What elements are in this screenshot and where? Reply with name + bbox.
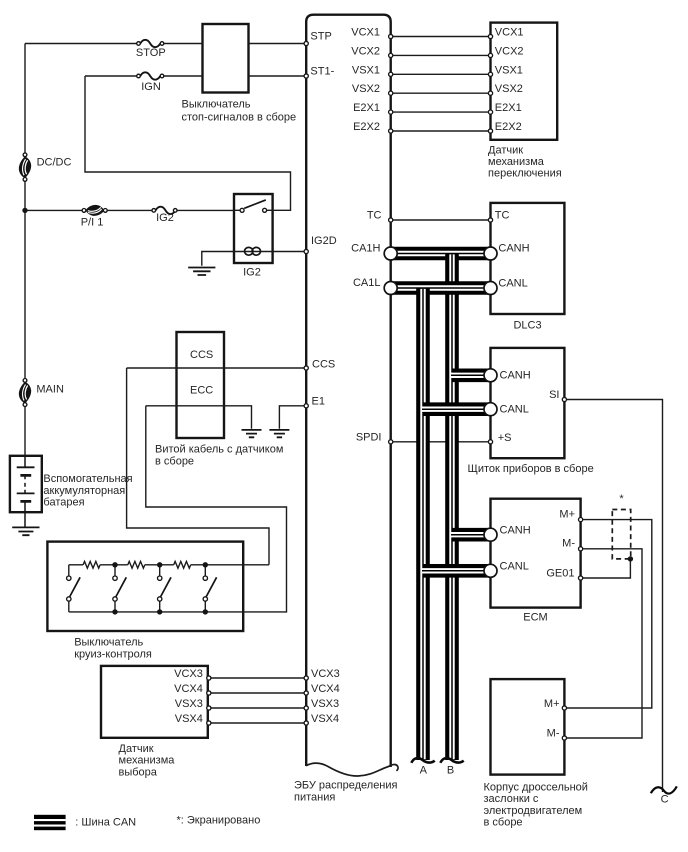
svg-text:CANL: CANL bbox=[500, 561, 529, 573]
svg-text:выбора: выбора bbox=[119, 766, 158, 778]
svg-text:CANH: CANH bbox=[498, 243, 529, 255]
svg-text:VSX4: VSX4 bbox=[311, 713, 339, 725]
terminal VCX1 ECU bbox=[389, 34, 393, 38]
wire IG2 fuse to relay bbox=[177, 209, 234, 211]
wire VSX2 bbox=[393, 92, 488, 94]
svg-text:DLC3: DLC3 bbox=[513, 320, 541, 332]
wire STP fuse to switch bbox=[164, 43, 203, 45]
svg-text:STP: STP bbox=[310, 30, 331, 42]
svg-text:TC: TC bbox=[367, 210, 382, 222]
wire cruise top rail bbox=[69, 564, 269, 566]
terminal E2X1 sensor bbox=[488, 110, 492, 114]
terminal VCX2 ECU bbox=[389, 53, 393, 57]
terminal SPDI ECU bbox=[389, 440, 393, 444]
wire CCS drop to cruise top rail bbox=[127, 368, 269, 565]
CAN bus branch CANH ECM bbox=[451, 528, 491, 542]
svg-text:M+: M+ bbox=[544, 698, 560, 710]
wire STP left segment bbox=[25, 43, 137, 45]
CAN bus branch CANH cluster bbox=[451, 368, 491, 382]
terminal CANH DLC3 bbox=[484, 247, 497, 260]
terminal VSX3 selector bbox=[207, 706, 211, 710]
terminal M- ECM bbox=[579, 547, 583, 551]
junction dots cruise bottom rail bbox=[112, 609, 208, 614]
fusible link P/I 1 bbox=[82, 205, 107, 215]
selector sensor box bbox=[101, 666, 208, 738]
svg-text:VCX2: VCX2 bbox=[351, 45, 380, 57]
svg-text:ECC: ECC bbox=[190, 385, 213, 397]
cruise switch 3 bbox=[158, 565, 172, 612]
terminal M+ throttle bbox=[562, 706, 566, 710]
wire CCS bbox=[127, 367, 304, 369]
terminal CA1H ECU bbox=[384, 247, 397, 260]
cruise control switch box bbox=[47, 542, 243, 631]
svg-text:IGN: IGN bbox=[141, 81, 161, 93]
svg-text:питания: питания bbox=[294, 791, 335, 803]
svg-text:Вспомогательная: Вспомогательная bbox=[43, 473, 132, 485]
wire VSX3 bbox=[211, 707, 304, 709]
svg-text:GE01: GE01 bbox=[546, 568, 574, 580]
ground ECC bbox=[242, 430, 262, 437]
svg-text:IG2: IG2 bbox=[243, 267, 261, 279]
break squiggle B bbox=[440, 758, 463, 763]
wire ECC drop to cruise bottom rail bbox=[146, 406, 287, 612]
junction dots cruise top rail bbox=[112, 562, 208, 567]
terminal VCX3 selector bbox=[207, 676, 211, 680]
twisted cable box bbox=[177, 332, 225, 438]
terminal CANL ECM bbox=[484, 564, 497, 577]
svg-text:VSX2: VSX2 bbox=[352, 83, 380, 95]
svg-text:VSX3: VSX3 bbox=[175, 698, 203, 710]
svg-text:STOP: STOP bbox=[136, 47, 166, 59]
svg-text:A: A bbox=[420, 765, 428, 777]
terminal VCX2 sensor bbox=[488, 53, 492, 57]
wire VCX4 bbox=[211, 692, 304, 694]
terminal CANH cluster bbox=[484, 369, 497, 382]
svg-text:Корпус дроссельной: Корпус дроссельной bbox=[484, 782, 588, 794]
terminal ST1- bbox=[304, 74, 308, 78]
terminal SI cluster bbox=[562, 397, 566, 401]
svg-text:CANL: CANL bbox=[498, 278, 527, 290]
relay IG2 box bbox=[234, 194, 273, 263]
terminal VCX4 ECU bbox=[304, 691, 308, 695]
svg-text:Выключатель: Выключатель bbox=[74, 637, 143, 649]
wire main fuse row bbox=[25, 209, 82, 211]
wire left battery feed vertical mid bbox=[24, 181, 26, 378]
resistor R2 cruise bbox=[128, 561, 145, 568]
svg-text:CANL: CANL bbox=[500, 403, 529, 415]
terminal CANL cluster bbox=[484, 403, 497, 416]
svg-text:*: Экранировано: *: Экранировано bbox=[177, 814, 261, 826]
wire left battery feed vertical top bbox=[24, 44, 26, 153]
junction dot battery feed bbox=[22, 208, 27, 213]
wire relay coil row bbox=[234, 251, 273, 253]
terminal E2X2 sensor bbox=[488, 129, 492, 133]
terminal VCX4 selector bbox=[207, 691, 211, 695]
wire GE01 to shield bbox=[583, 559, 631, 578]
wire IGN drop to relay bbox=[85, 76, 291, 210]
cruise switch 2 bbox=[113, 565, 127, 612]
svg-text:VSX1: VSX1 bbox=[352, 64, 380, 76]
CAN bus branch CANL cluster bbox=[422, 402, 491, 416]
terminal STP bbox=[304, 41, 308, 45]
svg-text:B: B bbox=[447, 765, 454, 777]
legend CAN bus sample bbox=[34, 815, 66, 830]
terminal VSX2 sensor bbox=[488, 91, 492, 95]
svg-text:стоп-сигналов в сборе: стоп-сигналов в сборе bbox=[182, 111, 297, 123]
DLC3 box bbox=[491, 203, 565, 314]
resistor R1 cruise bbox=[83, 561, 100, 568]
terminal VSX2 ECU bbox=[389, 91, 393, 95]
svg-text:SPDI: SPDI bbox=[356, 432, 382, 444]
fusible link MAIN bbox=[19, 379, 30, 407]
svg-text:E2X1: E2X1 bbox=[495, 102, 522, 114]
terminal CANL DLC3 bbox=[484, 282, 497, 295]
svg-text:ЭБУ распределения: ЭБУ распределения bbox=[294, 780, 398, 792]
svg-text:M-: M- bbox=[547, 728, 560, 740]
svg-text:SI: SI bbox=[549, 389, 559, 401]
wire VCX2 bbox=[393, 54, 488, 56]
wire SI to node C bbox=[567, 400, 663, 793]
wire VSX4 bbox=[211, 722, 304, 724]
terminal E2X1 ECU bbox=[389, 110, 393, 114]
svg-text:CCS: CCS bbox=[190, 349, 213, 361]
wire VCX3 bbox=[211, 677, 304, 679]
terminal M- throttle bbox=[562, 736, 566, 740]
throttle body box bbox=[491, 679, 565, 775]
svg-text:ECM: ECM bbox=[523, 612, 547, 624]
shift sensor box bbox=[491, 23, 558, 140]
terminal TC ECU bbox=[389, 218, 393, 222]
svg-text:Витой кабель с датчиком: Витой кабель с датчиком bbox=[155, 443, 283, 455]
svg-text:VCX1: VCX1 bbox=[351, 27, 380, 39]
wire SPDI to +S bbox=[393, 441, 488, 443]
CAN bus CA1L horizontal bbox=[391, 281, 491, 295]
svg-text:CANH: CANH bbox=[500, 370, 531, 382]
svg-text:P/I 1: P/I 1 bbox=[81, 217, 104, 229]
svg-text:ST1-: ST1- bbox=[310, 66, 334, 78]
terminal CANH ECM bbox=[484, 528, 497, 541]
svg-text:TC: TC bbox=[495, 210, 510, 222]
svg-text:VCX3: VCX3 bbox=[174, 668, 203, 680]
svg-text:в сборе: в сборе bbox=[484, 817, 523, 829]
svg-text:аккумуляторная: аккумуляторная bbox=[43, 485, 125, 497]
svg-text:E1: E1 bbox=[312, 396, 325, 408]
svg-text:круиз-контроля: круиз-контроля bbox=[74, 648, 152, 660]
svg-text:E2X2: E2X2 bbox=[495, 121, 522, 133]
svg-text:батарея: батарея bbox=[43, 497, 84, 509]
wire cruise bottom rail bbox=[69, 611, 243, 613]
wire TC bbox=[393, 219, 488, 221]
terminal +S cluster bbox=[488, 440, 492, 444]
terminal VSX4 selector bbox=[207, 721, 211, 725]
svg-text:M+: M+ bbox=[559, 509, 575, 521]
svg-text:механизма: механизма bbox=[119, 755, 176, 767]
svg-text:VSX1: VSX1 bbox=[495, 64, 523, 76]
CAN bus branch CANL ECM bbox=[422, 564, 491, 578]
wire IG2D relay to ECU bbox=[273, 251, 304, 253]
wire relay contact out bbox=[267, 209, 273, 211]
fuse STOP bbox=[137, 40, 164, 47]
terminal E1 bbox=[304, 404, 308, 408]
wire P/I 1 to IG2 fuse bbox=[107, 209, 152, 211]
svg-text:Датчик: Датчик bbox=[488, 145, 523, 157]
svg-text:VCX2: VCX2 bbox=[495, 45, 524, 57]
svg-text:C: C bbox=[661, 794, 669, 806]
svg-text:заслонки с: заслонки с bbox=[484, 793, 539, 805]
svg-text:CA1L: CA1L bbox=[353, 277, 381, 289]
wire E2X1 bbox=[393, 111, 488, 113]
terminal M+ ECM bbox=[579, 518, 583, 522]
svg-text:VCX4: VCX4 bbox=[311, 683, 340, 695]
svg-text:+S: +S bbox=[498, 432, 512, 444]
svg-text:: Шина CAN: : Шина CAN bbox=[75, 816, 136, 828]
terminal GE01 ECM bbox=[579, 576, 583, 580]
battery cells bbox=[17, 456, 35, 527]
wire E1 to ground bbox=[279, 406, 304, 429]
svg-text:механизма: механизма bbox=[488, 156, 545, 168]
relay IG2 switch contacts bbox=[240, 200, 267, 212]
svg-text:IG2D: IG2D bbox=[311, 235, 337, 247]
svg-text:Выключатель: Выключатель bbox=[182, 99, 251, 111]
CAN bus vertical pipe B bbox=[445, 254, 459, 761]
wire VSX1 bbox=[393, 73, 488, 75]
wire relay coil to ground bbox=[202, 252, 234, 266]
wire VCX1 bbox=[393, 36, 488, 38]
svg-text:IG2: IG2 bbox=[156, 212, 174, 224]
break squiggle A bbox=[411, 758, 434, 763]
svg-text:электродвигателем: электродвигателем bbox=[484, 805, 583, 817]
wire ECC bbox=[146, 406, 252, 429]
fuse IG2 bbox=[152, 207, 177, 214]
wire M- ECM to throttle bbox=[567, 549, 642, 738]
terminal VSX4 ECU bbox=[304, 721, 308, 725]
svg-text:CA1H: CA1H bbox=[351, 243, 380, 255]
svg-text:*: * bbox=[619, 493, 624, 505]
instrument cluster box bbox=[491, 348, 565, 458]
terminal VCX3 ECU bbox=[304, 676, 308, 680]
fusible link DC/DC bbox=[19, 153, 30, 181]
svg-text:VSX4: VSX4 bbox=[175, 713, 203, 725]
cruise switch 4 bbox=[203, 565, 217, 612]
wire ST1- switch to ECU bbox=[249, 75, 305, 77]
battery box bbox=[10, 456, 42, 512]
wire relay contact feed bbox=[234, 209, 240, 211]
terminal CA1L ECU bbox=[384, 282, 397, 295]
terminal VSX3 ECU bbox=[304, 706, 308, 710]
terminal VCX1 sensor bbox=[488, 34, 492, 38]
svg-text:VCX4: VCX4 bbox=[174, 683, 203, 695]
terminal TC DLC3 bbox=[488, 218, 492, 222]
svg-text:DC/DC: DC/DC bbox=[37, 157, 72, 169]
svg-text:переключения: переключения bbox=[488, 168, 562, 180]
svg-text:CCS: CCS bbox=[312, 359, 335, 371]
wire IGN left segment bbox=[85, 75, 137, 77]
ECU wavy bottom edge bbox=[306, 763, 398, 776]
terminal E2X2 ECU bbox=[389, 129, 393, 133]
wire IGN fuse to switch bbox=[164, 75, 203, 77]
svg-text:E2X2: E2X2 bbox=[353, 121, 380, 133]
cruise switch 1 bbox=[67, 565, 80, 612]
svg-text:VSX2: VSX2 bbox=[495, 83, 523, 95]
wire E2X2 bbox=[393, 130, 488, 132]
terminal CCS bbox=[304, 366, 308, 370]
fuse IGN bbox=[137, 72, 164, 79]
svg-text:M-: M- bbox=[562, 538, 575, 550]
terminal IG2D bbox=[304, 249, 308, 253]
wire M+ ECM to throttle bbox=[567, 520, 652, 708]
resistor R3 cruise bbox=[174, 561, 191, 568]
stop lamp switch box bbox=[203, 24, 249, 93]
svg-text:Щиток приборов в сборе: Щиток приборов в сборе bbox=[468, 463, 594, 475]
wire left battery feed vertical bottom bbox=[24, 407, 26, 456]
junction dot shield GE01 bbox=[628, 556, 633, 561]
ECU power distribution box bbox=[306, 15, 391, 767]
svg-text:в сборе: в сборе bbox=[155, 456, 194, 468]
svg-text:VCX1: VCX1 bbox=[495, 27, 524, 39]
ECM box bbox=[491, 499, 581, 608]
break squiggle C bbox=[651, 786, 677, 793]
terminal VSX1 sensor bbox=[488, 72, 492, 76]
terminal VSX1 ECU bbox=[389, 72, 393, 76]
svg-text:VCX3: VCX3 bbox=[311, 668, 340, 680]
relay IG2 coil bbox=[245, 247, 261, 255]
wire STP switch to ECU bbox=[249, 43, 305, 45]
svg-text:Датчик: Датчик bbox=[119, 743, 154, 755]
CAN bus vertical pipe A bbox=[416, 288, 430, 760]
svg-text:MAIN: MAIN bbox=[36, 384, 64, 396]
svg-text:VSX3: VSX3 bbox=[311, 698, 339, 710]
CAN bus CA1H horizontal bbox=[391, 247, 491, 261]
ground E1 bbox=[269, 430, 289, 437]
ground relay bbox=[188, 268, 215, 276]
shield dashed box bbox=[612, 510, 630, 559]
ground battery bbox=[12, 527, 39, 535]
svg-text:E2X1: E2X1 bbox=[353, 102, 380, 114]
svg-text:CANH: CANH bbox=[500, 525, 531, 537]
